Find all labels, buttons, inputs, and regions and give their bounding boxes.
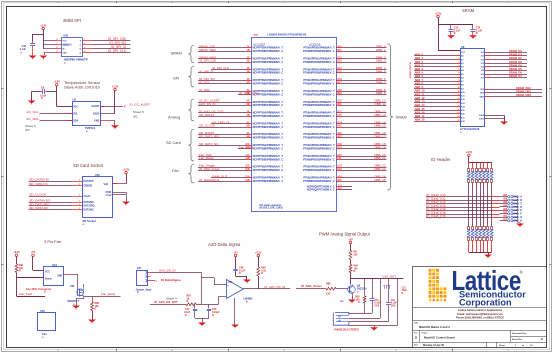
svg-text:R88: R88 [95, 302, 100, 305]
svg-text:NCPR/QAPT/XX8M.V_C: NCPR/QAPT/XX8M.V_C [307, 189, 335, 192]
svg-text:SPI: SPI [173, 76, 179, 81]
svg-text:IO_SPI_CLK: IO_SPI_CLK [212, 66, 229, 70]
svg-text:1: 1 [79, 195, 80, 197]
svg-text:C6A_OUT: C6A_OUT [383, 274, 397, 278]
svg-text:B11: B11 [338, 50, 343, 52]
svg-text:IO_A2O_DS_OUT: IO_A2O_DS_OUT [154, 300, 178, 304]
svg-text:W: W [62, 49, 64, 51]
svg-text:D: D [44, 291, 46, 294]
svg-text:J30: J30 [137, 267, 142, 270]
svg-text:Fan_Relay: Fan_Relay [101, 292, 116, 296]
svg-text:PT09B/PR30B/PIN09B/V_C: PT09B/PR30B/PIN09B/V_C [303, 115, 335, 118]
svg-text:I2C_SDA: I2C_SDA [26, 117, 39, 121]
svg-text:7: 7 [458, 76, 459, 78]
svg-text:HOLD: HOLD [62, 44, 68, 46]
svg-text:Fan: Fan [172, 168, 179, 173]
svg-text:Fan_Tach: Fan_Tach [19, 292, 33, 296]
svg-text:MachXO Banks 2 and 3: MachXO Banks 2 and 3 [419, 325, 450, 329]
svg-text:IO3: IO3 [503, 208, 508, 211]
svg-text:PT09A/PR30A/PIN09A/V_T: PT09A/PR30A/PIN09A/V_T [303, 68, 335, 71]
svg-text:D: D [212, 314, 214, 317]
svg-text:5.1k: 5.1k [261, 269, 266, 272]
svg-text:9: 9 [458, 84, 459, 86]
svg-text:DBB_19: DBB_19 [374, 145, 386, 149]
svg-text:SDA: SDA [73, 120, 78, 123]
svg-text:5B: 5B [247, 93, 250, 95]
svg-text:G12: G12 [338, 166, 343, 168]
svg-text:C21: C21 [402, 287, 407, 289]
svg-text:G16: G16 [338, 79, 343, 81]
svg-text:C24: C24 [476, 27, 481, 30]
svg-text:10: 10 [458, 87, 460, 89]
svg-text:10D: 10D [245, 147, 250, 149]
svg-text:2C: 2C [247, 57, 250, 59]
svg-text:NCP/PT08A/PRIN08A/V_T: NCP/PT08A/PRIN08A/V_T [253, 144, 284, 147]
svg-text:NCP/PT08B/PRIN08B/V_C: NCP/PT08B/PRIN08B/V_C [253, 72, 284, 75]
svg-text:D: D [454, 32, 456, 35]
svg-text:5: 5 [458, 69, 459, 71]
svg-text:C46: C46 [239, 267, 244, 270]
svg-text:DBB_25: DBB_25 [374, 178, 386, 182]
svg-text:PT09A/PR30A/PIN09A/V_T: PT09A/PR30A/PIN09A/V_T [303, 101, 335, 104]
svg-text:Corporation: Corporation [459, 298, 512, 308]
svg-text:PT09B/PR30B/PIN09B/V_C: PT09B/PR30B/PIN09B/V_C [303, 61, 335, 64]
svg-text:NCP/PT08B/PRIN08B/V_C: NCP/PT08B/PRIN08B/V_C [253, 104, 284, 107]
svg-text:PT09A/PR30A/PIN09A/V_T: PT09A/PR30A/PIN09A/V_T [303, 90, 335, 93]
svg-text:8D: 8D [247, 126, 250, 128]
svg-text:D: D [41, 97, 43, 100]
svg-text:D19: D19 [338, 147, 343, 149]
svg-text:U30: U30 [70, 285, 75, 288]
svg-text:NCP/PT08B/PRIN08B/V_C: NCP/PT08B/PRIN08B/V_C [253, 82, 284, 85]
svg-text:ALERT: ALERT [91, 105, 100, 108]
svg-text:PT09B/PR30B/PIN09B/V_C: PT09B/PR30B/PIN09B/V_C [303, 169, 335, 172]
svg-text:NCP/PT08B/PRIN08B/V_C: NCP/PT08B/PRIN08B/V_C [253, 137, 284, 140]
svg-text:DBB_5: DBB_5 [376, 70, 386, 74]
svg-text:IO_SDA_Driver: IO_SDA_Driver [301, 284, 323, 288]
svg-text:CMD/DI: CMD/DI [84, 184, 93, 187]
svg-text:VCC: VCC [461, 52, 466, 54]
svg-text:11: 11 [458, 91, 460, 93]
svg-text:IO_I2C_ALERT: IO_I2C_ALERT [130, 102, 151, 106]
svg-text:PWM Analog Signal Output: PWM Analog Signal Output [319, 231, 371, 236]
svg-text:SD Card: SD Card [166, 140, 181, 145]
svg-text:IO DeltaSigma: IO DeltaSigma [161, 278, 181, 282]
svg-text:Vss2: Vss2 [106, 194, 112, 197]
svg-text:Fan_Relay: Fan_Relay [199, 156, 214, 160]
svg-text:D: D [19, 270, 21, 273]
svg-text:GND: GND [57, 276, 62, 278]
svg-text:SD_DAT1_IRQ: SD_DAT1_IRQ [199, 134, 220, 138]
svg-text:NCP/PT08A/PRIN08A/V_T: NCP/PT08A/PRIN08A/V_T [253, 177, 284, 180]
svg-text:PT09A/PR30A/PIN09A/V_T: PT09A/PR30A/PIN09A/V_T [303, 166, 335, 169]
svg-text:100: 100 [326, 293, 331, 296]
svg-text:B15: B15 [338, 180, 343, 182]
svg-text:IO_SPI_CS0: IO_SPI_CS0 [108, 37, 126, 41]
svg-text:MachXO Control Board: MachXO Control Board [424, 336, 455, 340]
svg-text:GND_E: GND_E [513, 209, 522, 212]
svg-text:IO6: IO6 [503, 198, 508, 201]
svg-text:D: D [95, 308, 97, 311]
svg-text:0.01uF: 0.01uF [212, 311, 220, 314]
svg-text:+3.3V: +3.3V [466, 151, 473, 154]
svg-text:DBB_3: DBB_3 [376, 59, 386, 63]
svg-text:C61: C61 [391, 300, 396, 302]
svg-text:PT09A/PR30A/PIN09A/V_T: PT09A/PR30A/PIN09A/V_T [303, 47, 335, 50]
svg-text:PT09A/PR30A/PIN09A/V_T: PT09A/PR30A/PIN09A/V_T [303, 155, 335, 158]
svg-text:NCP/PT08A/PRIN08A/V_T: NCP/PT08A/PRIN08A/V_T [253, 112, 284, 115]
svg-text:PT09B/PR30B/PIN09B/V_C: PT09B/PR30B/PIN09B/V_C [303, 126, 335, 129]
svg-text:2D: 2D [247, 61, 250, 63]
svg-text:6D: 6D [247, 104, 250, 106]
svg-text:PT09A/PR30A/PIN09A/V_T: PT09A/PR30A/PIN09A/V_T [303, 57, 335, 60]
svg-text:NCP/PT08A/PRIN08A/V_T: NCP/PT08A/PRIN08A/V_T [253, 68, 284, 71]
svg-text:NCP/PT08B/PRIN08B/V_C: NCP/PT08B/PRIN08B/V_C [253, 158, 284, 161]
svg-text:3 Pin Fan: 3 Pin Fan [44, 239, 61, 244]
svg-text:Sheet 5: Sheet 5 [133, 110, 144, 114]
svg-text:1: 1 [84, 39, 85, 41]
svg-text:DAT0/DO: DAT0/DO [84, 201, 94, 204]
svg-text:Slave Addr 1001010: Slave Addr 1001010 [64, 85, 101, 90]
svg-text:1: 1 [79, 184, 80, 186]
svg-text:IO_SPI_CS0: IO_SPI_CS0 [199, 59, 217, 63]
svg-text:+5V: +5V [233, 251, 238, 254]
svg-text:NCP/PT08A/PRIN08A/V_T: NCP/PT08A/PRIN08A/V_T [253, 133, 284, 136]
svg-text:CH6: CH6 [375, 306, 380, 308]
svg-text:SD Card Socket: SD Card Socket [73, 163, 104, 168]
svg-text:IO7: IO7 [503, 194, 508, 197]
svg-text:SRAM_WE0: SRAM_WE0 [199, 48, 216, 52]
svg-text:E12: E12 [338, 111, 343, 113]
svg-text:C10: C10 [338, 101, 343, 103]
svg-text:NCP/PT08A/PRIN08A/V_T: NCP/PT08A/PRIN08A/V_T [253, 47, 284, 50]
svg-text:C45: C45 [212, 308, 217, 311]
svg-text:+3.3V: +3.3V [123, 168, 130, 171]
svg-text:C23: C23 [454, 27, 459, 30]
svg-text:C18: C18 [338, 144, 343, 146]
svg-text:DAT2/NC: DAT2/NC [84, 208, 94, 211]
svg-text:16: 16 [458, 109, 460, 111]
svg-text:Sheet 5: Sheet 5 [25, 124, 36, 128]
svg-text:IO_IOH6_IO6: IO_IOH6_IO6 [426, 214, 446, 218]
svg-text:D: D [354, 270, 356, 273]
svg-text:8C: 8C [247, 122, 250, 124]
svg-text:GND_A: GND_A [513, 195, 522, 198]
svg-text:R91: R91 [19, 264, 24, 267]
svg-text:IO_SCL: IO_SCL [199, 80, 210, 84]
svg-text:)(: )( [124, 105, 126, 108]
svg-text:Board Rev: Board Rev [512, 339, 523, 341]
svg-text:IO_SPI_SI: IO_SPI_SI [199, 70, 213, 74]
svg-text:SRAM: SRAM [462, 8, 475, 13]
svg-text:+3.3V: +3.3V [40, 24, 47, 27]
svg-text:DBB_13: DBB_13 [374, 113, 386, 117]
svg-text:R94: R94 [354, 265, 359, 268]
svg-text:D: D [246, 300, 248, 303]
svg-text:D: D [187, 300, 189, 303]
svg-text:6C: 6C [247, 101, 250, 103]
svg-text:DBB_17: DBB_17 [374, 134, 386, 138]
svg-text:SCL: SCL [73, 112, 78, 115]
svg-text:MOSFET T: MOSFET T [68, 300, 81, 303]
svg-text:1: 1 [79, 208, 80, 210]
svg-text:PT09A/PR30A/PIN09A/V_T: PT09A/PR30A/PIN09A/V_T [303, 112, 335, 115]
svg-text:B: B [541, 338, 543, 341]
svg-text:PT09A/PR30A/PIN09A/V_T: PT09A/PR30A/PIN09A/V_T [303, 177, 335, 180]
svg-text:+5V: +5V [348, 238, 353, 241]
svg-text:D: D [239, 272, 241, 275]
svg-text:1B: 1B [247, 50, 250, 52]
svg-text:SD_DATA3: SD_DATA3 [199, 113, 214, 117]
svg-text:NCP/PT08A/PRIN08A/V_T: NCP/PT08A/PRIN08A/V_T [253, 166, 284, 169]
svg-text:PT09B/PR30B/PIN09B/V_C: PT09B/PR30B/PIN09B/V_C [303, 180, 335, 183]
svg-text:VCC: VCC [62, 40, 67, 42]
svg-text:A2O Delta Sigma: A2O Delta Sigma [208, 242, 241, 247]
svg-text:PT09B/PR30B/PIN09B/V_C: PT09B/PR30B/PIN09B/V_C [303, 137, 335, 140]
svg-text:IO_SPI_SO: IO_SPI_SO [109, 41, 126, 45]
svg-text:NCP/PT08B/PRIN08B/V_C: NCP/PT08B/PRIN08B/V_C [253, 61, 284, 64]
svg-text:C12: C12 [338, 57, 343, 59]
svg-text:0.1uF: 0.1uF [391, 303, 398, 305]
svg-text:Clock: Clock [84, 195, 91, 198]
svg-text:LM4881: LM4881 [244, 298, 254, 301]
svg-text:12: 12 [458, 94, 460, 96]
svg-text:10k: 10k [19, 267, 24, 270]
svg-text:PT09B/PR30B/PIN09B/V_C: PT09B/PR30B/PIN09B/V_C [303, 72, 335, 75]
svg-text:R85: R85 [261, 267, 266, 270]
svg-text:VSS: VSS [62, 53, 67, 55]
svg-text:IO_SPI_SI: IO_SPI_SI [111, 45, 126, 49]
svg-text:8: 8 [57, 39, 58, 41]
svg-text:H17: H17 [338, 82, 343, 84]
svg-text:IO_A2O_DS_IN: IO_A2O_DS_IN [264, 285, 285, 289]
svg-text:GND_H: GND_H [513, 220, 522, 223]
svg-text:NCP/PT08A/PRIN08A/V_T: NCP/PT08A/PRIN08A/V_T [253, 155, 284, 158]
svg-text:15: 15 [458, 105, 460, 107]
svg-text:IO_DeltaSigma: IO_DeltaSigma [199, 178, 220, 182]
svg-text:PT09B/PR30B/PIN09B/V_C: PT09B/PR30B/PIN09B/V_C [303, 82, 335, 85]
svg-text:+3.3V: +3.3V [255, 251, 262, 254]
svg-text:D11: D11 [338, 104, 343, 106]
svg-text:R92: R92 [355, 297, 360, 299]
svg-text:5: 5 [57, 51, 58, 53]
svg-text:GND_C: GND_C [513, 202, 522, 205]
svg-text:NCP/PT08B/PRIN08B/V_C: NCP/PT08B/PRIN08B/V_C [253, 126, 284, 129]
svg-text:B19: B19 [338, 93, 343, 95]
svg-text:NCP/PT08B/PRIN08B/V_C: NCP/PT08B/PRIN08B/V_C [253, 115, 284, 118]
svg-text:IO2: IO2 [503, 211, 508, 214]
svg-text:NCPR/QAPT/XX8M.V_C: NCPR/QAPT/XX8M.V_C [307, 186, 335, 189]
svg-text:VSS1: VSS1 [105, 191, 112, 194]
svg-text:VCC: VCC [45, 272, 50, 274]
svg-text:PT09B/PR30B/PIN09B/V_C: PT09B/PR30B/PIN09B/V_C [303, 147, 335, 150]
svg-text:B17: B17 [338, 136, 343, 138]
svg-text:E10: E10 [338, 155, 343, 157]
svg-text:Vdd: Vdd [103, 183, 108, 186]
svg-text:R87: R87 [187, 295, 192, 298]
svg-text:DBB_7: DBB_7 [376, 80, 386, 84]
svg-text:12C: 12C [245, 166, 250, 168]
svg-text:VCCIO3: VCCIO3 [309, 43, 321, 47]
svg-text:13: 13 [458, 98, 460, 100]
svg-text:GND_D: GND_D [513, 206, 522, 209]
svg-text:SRAM: SRAM [396, 115, 407, 120]
svg-text:2: 2 [84, 43, 85, 45]
svg-text:I2C: I2C [25, 128, 31, 132]
svg-text:+5V: +5V [31, 251, 36, 254]
svg-text:H13: H13 [338, 169, 343, 171]
svg-text:NCP/PT08B/PRIN08B/V_C: NCP/PT08B/PRIN08B/V_C [253, 50, 284, 53]
svg-text:2: 2 [458, 58, 459, 60]
svg-text:SD_DAT2-NC: SD_DAT2-NC [29, 206, 49, 210]
svg-text:DBB_9: DBB_9 [376, 91, 386, 95]
svg-text:IO5: IO5 [503, 201, 508, 204]
svg-text:NCP/PT08A/PRIN08A/V_T: NCP/PT08A/PRIN08A/V_T [253, 57, 284, 60]
svg-text:SD_DATA3-DI: SD_DATA3-DI [29, 178, 49, 182]
svg-text:GND_F: GND_F [513, 213, 522, 216]
svg-text:0.1uF: 0.1uF [454, 29, 461, 32]
svg-text:R86: R86 [326, 283, 331, 286]
svg-text:U300: U300 [253, 34, 259, 36]
svg-text:SD_CLOCK: SD_CLOCK [29, 193, 47, 197]
svg-text:CH6: CH6 [391, 306, 396, 308]
svg-text:M25P80-VMN6TP: M25P80-VMN6TP [64, 57, 88, 61]
svg-text:VSS1: VSS1 [479, 119, 485, 121]
svg-text:H15: H15 [338, 126, 343, 128]
svg-text:11B: 11B [245, 158, 249, 160]
svg-text:A2O_DS_IN: A2O_DS_IN [159, 269, 176, 273]
svg-text:VCC: VCC [73, 105, 78, 108]
svg-text:19: 19 [458, 120, 460, 122]
svg-text:PT09A/PR30A/PIN09A/V_T: PT09A/PR30A/PIN09A/V_T [303, 122, 335, 125]
svg-text:I2C_SCL: I2C_SCL [26, 110, 39, 114]
svg-text:SRAM: SRAM [171, 51, 182, 56]
svg-text:17: 17 [458, 113, 460, 115]
svg-text:+3.3V: +3.3V [435, 12, 442, 15]
svg-text:+3.3V: +3.3V [13, 251, 20, 254]
svg-text:3: 3 [84, 47, 85, 49]
svg-text:SD_CLOCK: SD_CLOCK [199, 124, 215, 128]
svg-text:C28: C28 [22, 45, 27, 48]
svg-text:2Mbit SPI: 2Mbit SPI [63, 18, 81, 23]
svg-text:12D: 12D [245, 169, 250, 171]
svg-text:I2C: I2C [133, 115, 139, 119]
svg-text:C44: C44 [185, 308, 190, 311]
svg-text:B: B [415, 336, 417, 340]
svg-text:0.1uF: 0.1uF [184, 311, 191, 314]
svg-text:PT09B/PR30B/PIN09B/V_C: PT09B/PR30B/PIN09B/V_C [303, 158, 335, 161]
svg-text:18: 18 [458, 116, 460, 118]
svg-text:VSS0: VSS0 [479, 115, 485, 117]
svg-text:PT09A/PR30A/PIN09A/V_T: PT09A/PR30A/PIN09A/V_T [303, 79, 335, 82]
svg-text:-: - [227, 296, 228, 299]
svg-text:330: 330 [354, 253, 359, 256]
svg-text:)(: )( [156, 280, 158, 282]
svg-text:NCP/PT08B/PRIN08B/V_C: NCP/PT08B/PRIN08B/V_C [253, 169, 284, 172]
svg-text:DBB_15: DBB_15 [374, 124, 386, 128]
svg-text:NCP/PT08A/PRIN08A/V_T: NCP/PT08A/PRIN08A/V_T [253, 101, 284, 104]
svg-text:3: 3 [458, 62, 459, 64]
svg-text:SD_CMD-CS: SD_CMD-CS [29, 182, 47, 186]
svg-text:D: D [137, 291, 139, 294]
svg-text:IO1: IO1 [503, 215, 508, 218]
svg-text:10k: 10k [95, 305, 100, 308]
svg-text:0.1uF: 0.1uF [20, 48, 27, 51]
svg-text:GND_G: GND_G [513, 216, 522, 219]
svg-text:Monday, 01 Apr 08: Monday, 01 Apr 08 [423, 344, 445, 347]
svg-text:DBB_11: DBB_11 [375, 102, 386, 106]
svg-text:DAT3/CS: DAT3/CS [84, 180, 94, 183]
svg-text:J.11: J.11 [338, 185, 343, 187]
svg-text:IO Header: IO Header [431, 157, 451, 162]
svg-text:PT09B/PR30B/PIN09B/V_C: PT09B/PR30B/PIN09B/V_C [303, 93, 335, 96]
svg-text:NCP/PT08A/PRIN08A/V_T: NCP/PT08A/PRIN08A/V_T [253, 122, 284, 125]
svg-text:DAT1/IRQ: DAT1/IRQ [84, 205, 95, 208]
svg-text:PT09B/PR30B/PIN09B/V_C: PT09B/PR30B/PIN09B/V_C [303, 104, 335, 107]
svg-text:VCCIO2: VCCIO2 [253, 43, 265, 47]
svg-text:1: 1 [458, 55, 459, 57]
svg-text:PT09A/PR30A/PIN09A/V_T: PT09A/PR30A/PIN09A/V_T [303, 133, 335, 136]
svg-text:7: 7 [57, 43, 58, 45]
svg-text:8: 8 [458, 80, 459, 82]
svg-text:PT09A/PR30A/PIN09A/V_T: PT09A/PR30A/PIN09A/V_T [303, 144, 335, 147]
svg-text:DBB_23: DBB_23 [374, 167, 386, 171]
svg-text:IO_SPI_CLK: IO_SPI_CLK [108, 49, 127, 53]
svg-text:0.1uF: 0.1uF [375, 303, 382, 305]
svg-text:9B: 9B [247, 136, 250, 138]
svg-text:DBB_1: DBB_1 [376, 48, 386, 52]
svg-text:1: 1 [79, 201, 80, 203]
svg-text:IO_SDA_Driver: IO_SDA_Driver [199, 167, 220, 171]
svg-text:NCP/PT08A/PRIN08A/V_T: NCP/PT08A/PRIN08A/V_T [253, 79, 284, 82]
svg-text:10uF: 10uF [402, 290, 408, 292]
svg-text:Analog: Analog [168, 115, 180, 120]
svg-text:Sheet 4: Sheet 4 [166, 297, 177, 301]
svg-text:GND: GND [94, 120, 100, 123]
svg-text:1: 1 [79, 180, 80, 182]
svg-text:D: D [185, 314, 187, 317]
svg-text:DBB_21: DBB_21 [374, 156, 386, 160]
svg-text:1: 1 [79, 204, 80, 206]
svg-text:D: D [261, 272, 263, 275]
svg-text:NCP/PT08B/PRIN08B/V_C: NCP/PT08B/PRIN08B/V_C [253, 147, 284, 150]
svg-text:PT09B/PR30B/PIN09B/V_C: PT09B/PR30B/PIN09B/V_C [303, 50, 335, 53]
svg-text:of: of [522, 345, 524, 347]
svg-text:+3.3V: +3.3V [112, 85, 119, 88]
svg-text:IO_SDA: IO_SDA [199, 88, 210, 92]
svg-text:0.1uF: 0.1uF [476, 29, 483, 32]
svg-text:13B: 13B [245, 180, 250, 182]
svg-text:(R.5XX, L2XX, L3XX): (R.5XX, L2XX, L3XX) [260, 207, 283, 210]
svg-text:C51: C51 [375, 300, 380, 302]
svg-text:D: D [476, 32, 478, 35]
svg-text:IO0: IO0 [503, 218, 508, 221]
svg-text:+3.3V: +3.3V [54, 81, 61, 84]
svg-text:Size: Size [414, 332, 418, 334]
svg-text:6: 6 [458, 73, 459, 75]
svg-text:A2O_DS_IN: A2O_DS_IN [199, 102, 216, 106]
svg-text:Sense: Sense [45, 279, 52, 281]
svg-text:SD_DAT2_NC: SD_DAT2_NC [199, 142, 219, 146]
svg-text:GND_B: GND_B [513, 199, 522, 202]
svg-text:D13: D13 [338, 61, 343, 63]
svg-text:0.1uF: 0.1uF [239, 269, 246, 272]
svg-text:NCP/PT08B/PRIN08B/V_C: NCP/PT08B/PRIN08B/V_C [253, 180, 284, 183]
svg-text:ADD0: ADD0 [93, 112, 100, 115]
svg-text:7B: 7B [247, 115, 250, 117]
svg-text:3B: 3B [247, 72, 250, 74]
svg-text:6: 6 [57, 47, 58, 49]
